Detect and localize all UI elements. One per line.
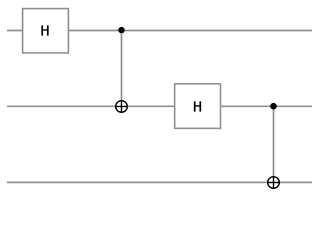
wire q0 — [7, 30, 312, 32]
target CNOT1 — [116, 101, 128, 113]
wire CNOT1 vertical — [121, 30, 123, 112]
gate H1 box — [23, 9, 69, 53]
wire q2 — [7, 181, 312, 183]
gate H2 label — [194, 101, 201, 111]
gate H2 box — [175, 84, 221, 129]
target CNOT2 — [268, 177, 280, 189]
wire q1 — [7, 105, 312, 107]
wire CNOT2 vertical — [273, 106, 275, 188]
control dot CNOT1 — [118, 27, 124, 33]
control dot CNOT2 — [270, 103, 277, 110]
gate H1 label — [41, 25, 48, 35]
